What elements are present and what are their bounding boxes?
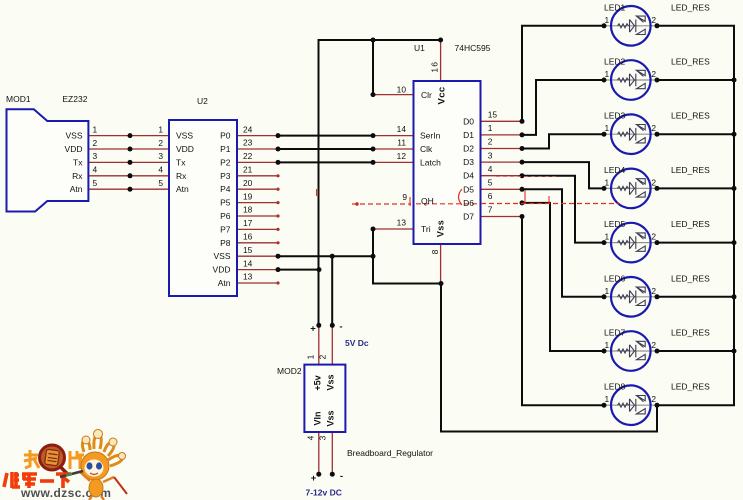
svg-text:74HC595: 74HC595	[455, 43, 491, 53]
svg-text:18: 18	[243, 205, 253, 215]
svg-text:2: 2	[651, 286, 656, 296]
svg-text:3: 3	[488, 150, 493, 160]
svg-text:2: 2	[651, 69, 656, 79]
svg-text:2: 2	[651, 232, 656, 242]
svg-text:D7: D7	[463, 212, 474, 222]
svg-text:LED_RES: LED_RES	[671, 328, 710, 338]
svg-text:QH: QH	[421, 196, 434, 206]
svg-text:P8: P8	[220, 238, 231, 248]
svg-text:2: 2	[651, 340, 656, 350]
svg-text:Latch: Latch	[420, 157, 441, 167]
svg-text:Atn: Atn	[218, 278, 231, 288]
svg-text:2: 2	[651, 15, 656, 25]
svg-text:1: 1	[605, 286, 610, 296]
svg-text:5: 5	[158, 178, 163, 188]
svg-text:P1: P1	[220, 144, 231, 154]
svg-text:1: 1	[605, 340, 610, 350]
svg-text:5: 5	[93, 178, 98, 188]
svg-text:LED2: LED2	[604, 57, 626, 67]
svg-text:MOD1: MOD1	[6, 94, 31, 104]
svg-text:3: 3	[93, 151, 98, 161]
svg-text:22: 22	[243, 151, 253, 161]
svg-text:Rx: Rx	[176, 171, 187, 181]
svg-text:VIn: VIn	[313, 411, 323, 425]
svg-text:LED_RES: LED_RES	[671, 273, 710, 283]
svg-text:Vss: Vss	[326, 410, 336, 426]
svg-text:11: 11	[397, 138, 406, 148]
svg-text:Tx: Tx	[73, 157, 83, 167]
svg-text:5V Dc: 5V Dc	[345, 338, 369, 348]
svg-text:7-12v DC: 7-12v DC	[306, 488, 342, 498]
svg-text:U2: U2	[197, 96, 208, 106]
svg-text:Vcc: Vcc	[437, 86, 448, 104]
svg-text:15: 15	[243, 245, 253, 255]
svg-text:LED_RES: LED_RES	[671, 57, 710, 67]
svg-text:VSS: VSS	[213, 251, 230, 261]
svg-text:EZ232: EZ232	[62, 94, 87, 104]
svg-text:-: -	[339, 322, 342, 333]
svg-text:LED7: LED7	[604, 328, 626, 338]
svg-text:P5: P5	[220, 198, 231, 208]
svg-text:MOD2: MOD2	[277, 366, 302, 376]
svg-text:14: 14	[243, 258, 253, 268]
svg-text:VSS: VSS	[65, 131, 82, 141]
svg-text:VDD: VDD	[65, 144, 83, 154]
svg-text:LED3: LED3	[604, 111, 626, 121]
svg-text:P2: P2	[220, 157, 231, 167]
svg-text:LED_RES: LED_RES	[671, 111, 710, 121]
svg-text:16: 16	[430, 61, 440, 73]
svg-text:4: 4	[488, 164, 493, 174]
svg-text:23: 23	[243, 138, 253, 148]
svg-text:2: 2	[488, 137, 493, 147]
svg-text:LED4: LED4	[604, 165, 626, 175]
svg-text:8: 8	[430, 249, 440, 254]
svg-text:D0: D0	[463, 116, 474, 126]
svg-text:LED5: LED5	[604, 219, 626, 229]
svg-text:1: 1	[488, 123, 493, 133]
svg-text:P6: P6	[220, 211, 231, 221]
svg-text:2: 2	[651, 394, 656, 404]
svg-text:2: 2	[651, 177, 656, 187]
svg-text:4: 4	[306, 435, 316, 440]
svg-text:D3: D3	[463, 157, 474, 167]
svg-text:21: 21	[243, 165, 253, 175]
svg-text:Breadboard_Regulator: Breadboard_Regulator	[347, 448, 433, 458]
svg-text:P4: P4	[220, 184, 231, 194]
svg-text:-: -	[340, 471, 343, 482]
svg-text:Tri: Tri	[421, 224, 431, 234]
svg-text:6: 6	[488, 191, 493, 201]
svg-text:3: 3	[318, 435, 328, 440]
svg-text:1: 1	[605, 15, 610, 25]
svg-text:1: 1	[605, 232, 610, 242]
svg-text:10: 10	[397, 85, 407, 95]
svg-text:LED6: LED6	[604, 273, 626, 283]
svg-text:LED1: LED1	[604, 2, 626, 12]
svg-text:16: 16	[243, 232, 253, 242]
svg-text:13: 13	[397, 218, 407, 228]
svg-text:+: +	[310, 324, 316, 335]
svg-text:1: 1	[306, 354, 316, 359]
svg-text:1: 1	[93, 124, 98, 134]
svg-text:LED_RES: LED_RES	[671, 382, 710, 392]
svg-text:5: 5	[488, 178, 493, 188]
svg-text:19: 19	[243, 191, 253, 201]
svg-text:VSS: VSS	[176, 131, 193, 141]
svg-text:LED_RES: LED_RES	[671, 219, 710, 229]
svg-text:Atn: Atn	[70, 184, 83, 194]
svg-text:Clk: Clk	[420, 144, 433, 154]
svg-text:LED_RES: LED_RES	[671, 2, 710, 12]
svg-text:P7: P7	[220, 224, 231, 234]
svg-text:D6: D6	[463, 198, 474, 208]
svg-text:17: 17	[243, 218, 253, 228]
svg-text:VDD: VDD	[213, 265, 231, 275]
svg-text:2: 2	[651, 123, 656, 133]
svg-text:SerIn: SerIn	[420, 131, 441, 141]
svg-text:1: 1	[605, 69, 610, 79]
svg-text:2: 2	[158, 138, 163, 148]
svg-text:1: 1	[158, 124, 163, 134]
svg-text:+5v: +5v	[313, 375, 323, 390]
svg-text:LED8: LED8	[604, 382, 626, 392]
svg-text:LED_RES: LED_RES	[671, 165, 710, 175]
svg-text:1: 1	[605, 394, 610, 404]
svg-text:20: 20	[243, 178, 253, 188]
svg-text:7: 7	[488, 205, 493, 215]
svg-text:9: 9	[402, 192, 407, 202]
svg-text:U1: U1	[414, 43, 425, 53]
svg-text:Vss: Vss	[436, 220, 446, 237]
svg-text:4: 4	[93, 165, 98, 175]
svg-text:P3: P3	[220, 171, 231, 181]
svg-text:Clr: Clr	[421, 90, 432, 100]
svg-text:4: 4	[158, 165, 163, 175]
svg-text:Vss: Vss	[326, 374, 336, 390]
svg-text:14: 14	[397, 124, 407, 134]
svg-text:D1: D1	[463, 130, 474, 140]
svg-text:D2: D2	[463, 144, 474, 154]
svg-text:Rx: Rx	[72, 171, 83, 181]
svg-text:2: 2	[93, 138, 98, 148]
svg-text:13: 13	[243, 272, 253, 282]
svg-text:2: 2	[318, 354, 328, 359]
svg-text:Tx: Tx	[176, 157, 186, 167]
svg-text:VDD: VDD	[176, 144, 194, 154]
svg-text:D5: D5	[463, 184, 474, 194]
svg-text:Atn: Atn	[176, 184, 189, 194]
svg-text:3: 3	[158, 151, 163, 161]
svg-text:15: 15	[488, 110, 498, 120]
svg-text:1: 1	[605, 123, 610, 133]
svg-text:D4: D4	[463, 171, 474, 181]
svg-text:1: 1	[605, 177, 610, 187]
svg-text:P0: P0	[220, 131, 231, 141]
svg-text:+: +	[311, 473, 317, 484]
svg-text:24: 24	[243, 124, 253, 134]
svg-text:12: 12	[397, 151, 407, 161]
